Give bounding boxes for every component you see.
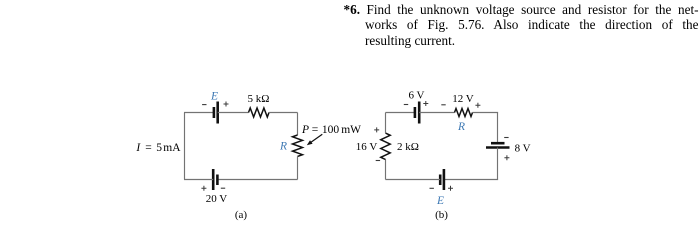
minus sign 6 V battery [404, 104, 408, 106]
plus sign 6 V battery [423, 101, 428, 106]
svg-text:6 V: 6 V [409, 90, 425, 102]
wire: right side lower (b) [497, 148, 499, 180]
wire: top-right segment (a) [269, 112, 298, 114]
battery 6 V [415, 102, 419, 124]
wire: bottom-left segment (b) [386, 179, 441, 181]
minus sign 2k resistor [376, 160, 380, 162]
wire: left side of loop (a) [184, 113, 186, 180]
wire: top-left segment to battery E [184, 112, 213, 114]
minus sign battery E (b) [430, 187, 434, 189]
svg-text:2 kΩ: 2 kΩ [397, 141, 419, 153]
svg-text:I=5mA: I=5mA [135, 142, 181, 154]
svg-text:E: E [436, 195, 444, 207]
wire: between battery E and resistor 5k [218, 112, 249, 114]
svg-text:5 kΩ: 5 kΩ [248, 93, 270, 105]
svg-text:R: R [279, 140, 287, 152]
wire: left side lower (b) [385, 160, 387, 180]
plus sign 20 V battery [201, 186, 206, 191]
wire: bottom-right segment (b) [444, 179, 498, 181]
minus sign 20 V battery [221, 187, 225, 189]
svg-text:(a): (a) [235, 209, 248, 221]
arrow pointing to resistor R (power label) [307, 134, 323, 145]
resistor R (unknown) [293, 135, 303, 156]
battery E (source, unknown) [214, 102, 218, 124]
wire: right side upper (b) [497, 113, 499, 143]
battery E (b, unknown) [440, 169, 444, 190]
wire: right side upper (a) [297, 113, 299, 136]
plus sign 2k resistor [374, 127, 379, 132]
resistor 2 kOhm (16 V across) [381, 133, 390, 159]
wire: top-left segment (b) [386, 112, 415, 114]
svg-text:16 V: 16 V [356, 141, 378, 153]
wire: bottom-left segment (a) [184, 179, 213, 181]
resistor 5 kOhm [249, 108, 270, 117]
minus sign resistor R (b) [441, 104, 445, 106]
resistor R (b, unknown, 12 V across) [455, 109, 473, 117]
svg-text:E: E [210, 90, 218, 102]
wire: between 6 V battery and resistor R (b) [419, 112, 454, 114]
svg-text:8 V: 8 V [515, 142, 531, 154]
problem statement text [344, 2, 699, 17]
plus sign battery E (b) [448, 186, 453, 191]
wire: bottom-right segment (a) [217, 179, 297, 181]
wire: right side lower (a) [297, 157, 299, 180]
plus sign 8 V battery [504, 155, 509, 160]
svg-text:12 V: 12 V [452, 93, 474, 105]
plus sign battery E [224, 102, 229, 107]
svg-text:R: R [457, 121, 465, 133]
wire: top-right segment (b) [473, 112, 499, 114]
plus sign resistor R (b) [475, 103, 480, 108]
minus sign 8 V battery [504, 137, 508, 139]
battery 8 V [486, 143, 510, 147]
minus sign battery E [202, 104, 206, 106]
svg-text:P=100mW: P=100mW [301, 124, 361, 136]
svg-text:(b): (b) [435, 209, 448, 221]
svg-text:20 V: 20 V [206, 193, 228, 205]
wire: left side upper (b) [385, 113, 387, 134]
battery 20 V [213, 169, 217, 190]
